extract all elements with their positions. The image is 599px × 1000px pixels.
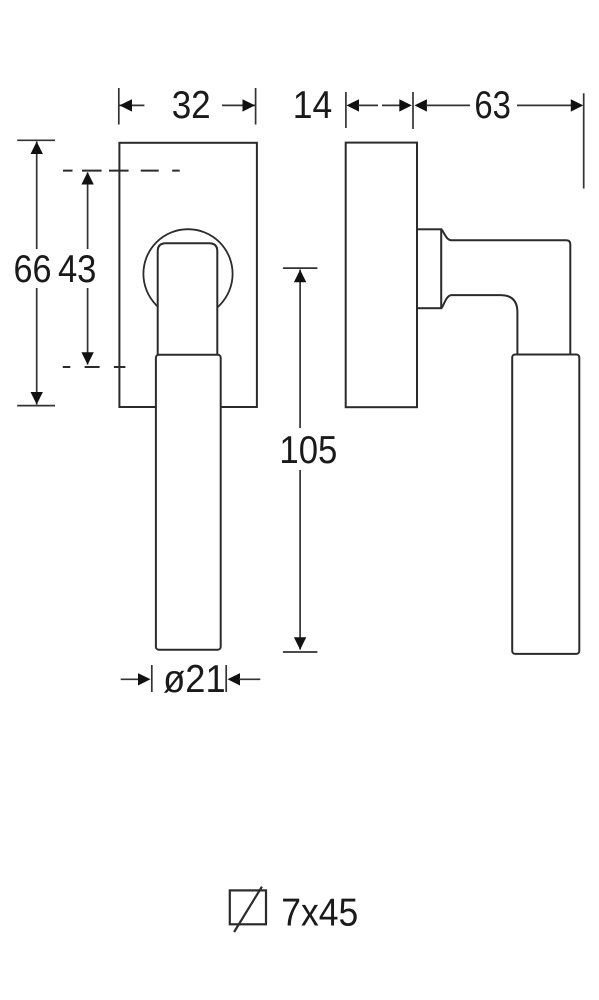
svg-text:14: 14 bbox=[293, 84, 333, 127]
dimension 63 arrows bbox=[414, 99, 583, 111]
spindle symbol diagonal bbox=[234, 887, 262, 932]
spindle size text 7x45 bbox=[281, 892, 358, 935]
dimension 14 arrows bbox=[347, 99, 412, 111]
dimension 63 text bbox=[474, 84, 511, 127]
dashed centerline top bbox=[63, 170, 180, 172]
dimension 66 text bbox=[14, 248, 52, 291]
side view grip bbox=[512, 355, 579, 654]
svg-text:32: 32 bbox=[172, 84, 211, 127]
dimension 105 extension lines bbox=[283, 268, 318, 652]
dimension 32 extension lines bbox=[119, 88, 256, 125]
svg-text:7x45: 7x45 bbox=[281, 892, 358, 935]
handle neck (front view) bbox=[158, 243, 218, 357]
dimension 105 line and arrows bbox=[294, 270, 306, 650]
handle grip (front view) bbox=[156, 355, 221, 650]
dimension 66 extension lines bbox=[17, 140, 55, 405]
svg-text:ø21: ø21 bbox=[163, 658, 226, 701]
dimension 105 text bbox=[279, 429, 337, 472]
side view handle arm top edge bbox=[441, 230, 570, 355]
dimension diameter 21 text bbox=[163, 658, 226, 701]
dimension 66 line and arrows bbox=[31, 142, 43, 405]
svg-text:105: 105 bbox=[279, 429, 337, 472]
dimension diameter 21 right arrow bbox=[226, 665, 260, 692]
dimension 43 text bbox=[58, 248, 97, 291]
dimension 14 text bbox=[293, 84, 333, 127]
dashed centerline bottom bbox=[63, 366, 126, 368]
dimension 32 arrows bbox=[120, 99, 256, 111]
svg-text:43: 43 bbox=[58, 248, 97, 291]
dimension diameter 21 left arrow bbox=[121, 665, 152, 692]
side view hub bbox=[417, 229, 441, 308]
side view plate bbox=[346, 143, 417, 408]
front view rosette plate bbox=[119, 143, 257, 407]
side view handle arm bottom edge bbox=[441, 295, 517, 354]
dimension 14 extension lines bbox=[346, 92, 413, 129]
dimension 63 right extension line bbox=[583, 93, 585, 188]
svg-text:63: 63 bbox=[474, 84, 511, 127]
spindle symbol square bbox=[230, 890, 266, 924]
dimension 43 line and arrows bbox=[81, 172, 93, 365]
dimension 32 text bbox=[172, 84, 211, 127]
rosette circle bbox=[143, 229, 232, 318]
svg-text:66: 66 bbox=[14, 248, 52, 291]
